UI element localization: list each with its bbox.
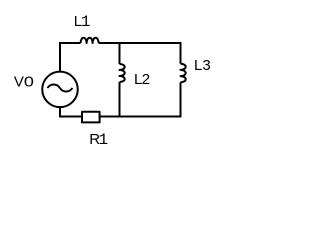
wire right branch lower <box>180 82 182 116</box>
wire middle branch lower <box>119 82 121 117</box>
svg-text:L1: L1 <box>74 13 91 31</box>
wire bottom-left vertical (bottom rail to V0 bottom) <box>59 107 61 118</box>
wire top-left vertical (V0 top to top rail) <box>59 43 61 72</box>
inductor L1 <box>81 38 99 43</box>
svg-text:L2: L2 <box>134 71 150 88</box>
inductor L2 <box>120 64 125 82</box>
wire bottom rail right segment <box>101 116 182 118</box>
resistor R1 <box>82 112 100 123</box>
wire bottom rail left segment <box>60 116 81 118</box>
svg-text:V0: V0 <box>14 74 34 91</box>
inductor L3 <box>181 64 186 83</box>
voltage source V0 sine wave <box>47 84 72 91</box>
voltage source V0 circle <box>42 72 78 108</box>
svg-text:R1: R1 <box>89 131 108 149</box>
wire middle branch upper <box>119 43 121 64</box>
wire right branch upper <box>180 42 182 64</box>
wire top rail right segment <box>99 42 181 44</box>
svg-text:L3: L3 <box>194 57 211 74</box>
wire top rail left segment <box>59 42 81 44</box>
